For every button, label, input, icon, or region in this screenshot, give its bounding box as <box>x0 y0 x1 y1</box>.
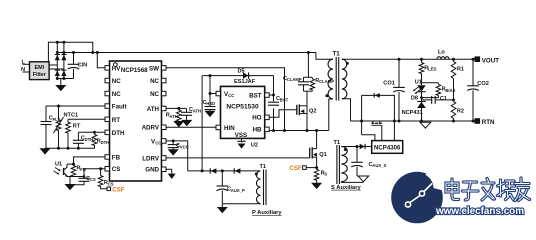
optocoupler U1 phototransistor <box>54 162 74 178</box>
wire bulk rail (rail2) <box>57 53 333 60</box>
diode D bridge top-right <box>61 55 66 61</box>
junction dots bridge top <box>56 41 59 44</box>
svg-text:D5: D5 <box>238 68 245 74</box>
svg-text:U1: U1 <box>55 162 62 168</box>
diode D5 ES1JAF <box>234 68 256 85</box>
capacitor CATH <box>181 107 201 120</box>
pin ADRV <box>162 125 167 130</box>
wire QSR gate <box>381 125 383 140</box>
terminal VOUT <box>475 56 481 62</box>
svg-text:CSF: CSF <box>112 186 125 193</box>
ground CATH <box>181 120 192 126</box>
wire ground rail left <box>45 147 95 149</box>
svg-text:S: S <box>324 172 327 177</box>
ground CAUX_P <box>221 204 223 207</box>
pin ATH <box>162 106 167 111</box>
pin RT <box>105 117 110 122</box>
svg-text:SW: SW <box>149 65 159 72</box>
pin GND <box>162 167 167 172</box>
svg-text:FB: FB <box>80 167 86 172</box>
glyph 友 <box>515 178 530 201</box>
pin SW <box>162 66 167 71</box>
resistor RLED <box>419 58 436 83</box>
EMI filter block <box>30 62 50 80</box>
svg-text:ES1JAF: ES1JAF <box>234 79 256 85</box>
svg-text:BST: BST <box>249 92 262 99</box>
svg-text:EMI: EMI <box>35 65 45 71</box>
capacitor C1 <box>422 96 454 104</box>
capacitor CIN <box>68 53 87 79</box>
wire LED node bottom <box>422 97 439 99</box>
junction dots ground rail <box>57 147 60 150</box>
wire CS net <box>84 169 105 177</box>
wire Q2 source <box>306 115 308 130</box>
svg-text:CO1: CO1 <box>383 80 395 86</box>
svg-text:Q2: Q2 <box>309 109 316 115</box>
svg-text:LDRV: LDRV <box>142 155 160 162</box>
wire SW to switch node <box>166 68 285 131</box>
svg-text:DTH: DTH <box>112 130 125 137</box>
resistor R1 <box>451 58 464 102</box>
svg-text:C1: C1 <box>440 96 447 102</box>
wire EMI out top <box>49 64 57 66</box>
resistor RT <box>66 119 81 148</box>
diode sync body <box>374 93 380 98</box>
ground CHSD <box>205 111 216 117</box>
capacitor CVCC <box>168 141 189 149</box>
capacitor CBST <box>268 96 289 108</box>
wire FB net <box>74 157 106 164</box>
svg-text:BST: BST <box>280 98 289 103</box>
pin LDRV <box>162 156 167 161</box>
svg-text:BIAS: BIAS <box>445 88 455 93</box>
glyph 发 <box>482 179 495 201</box>
junction dots switch node <box>272 129 275 132</box>
wire VCC 51530 <box>210 93 216 95</box>
ground RATH <box>173 121 184 127</box>
wire s-aux bottom <box>341 181 363 184</box>
wire LDRV net <box>166 157 310 159</box>
svg-text:Filter: Filter <box>33 72 47 78</box>
glyph 子 <box>463 182 479 200</box>
svg-text:Lo: Lo <box>438 49 445 55</box>
diode D bridge top-left <box>55 55 60 61</box>
svg-text:T1: T1 <box>333 51 341 58</box>
ground bridge <box>60 79 62 86</box>
ground secondary <box>424 121 426 122</box>
wire aux rail <box>188 170 260 172</box>
wire clamp top bar <box>304 76 313 78</box>
U3 NCP4306 <box>372 141 403 154</box>
svg-text:CLAMP: CLAMP <box>319 79 334 84</box>
svg-text:ATH: ATH <box>170 114 178 119</box>
svg-text:ATH: ATH <box>193 108 201 113</box>
wire s-aux top <box>341 146 371 148</box>
pin VCC U2 <box>216 91 221 96</box>
svg-text:www.elecfans.com: www.elecfans.com <box>435 206 524 217</box>
svg-text:VOUT: VOUT <box>482 57 499 64</box>
svg-text:CC: CC <box>228 93 234 98</box>
node CSF secondary tap <box>303 166 307 170</box>
svg-text:Fault: Fault <box>112 104 127 111</box>
wire clamp feed <box>307 53 309 78</box>
wire HV feed <box>97 53 105 68</box>
svg-text:NCP4306: NCP4306 <box>374 145 401 152</box>
svg-text:VSS: VSS <box>235 132 247 139</box>
resistor R2 <box>451 102 464 123</box>
resistor RATH <box>166 108 181 121</box>
svg-text:T1: T1 <box>260 164 267 170</box>
svg-text:RT: RT <box>112 117 120 124</box>
glyph 电 <box>446 179 459 200</box>
wire bridge top rail1 <box>57 41 64 43</box>
svg-text:HSD: HSD <box>206 101 215 106</box>
diode D bridge bottom-right <box>61 70 66 76</box>
svg-text:FB: FB <box>112 154 121 161</box>
svg-text:Q1: Q1 <box>319 152 326 158</box>
sync rect loop <box>362 95 395 140</box>
pin NC left2 <box>105 78 110 83</box>
bridge rectifier column 2 <box>63 42 65 78</box>
ground VSS U2 <box>237 138 258 148</box>
wire VCC net <box>166 141 188 171</box>
svg-text:HB: HB <box>253 127 262 134</box>
svg-text:RT: RT <box>73 124 81 130</box>
pin NC right3 <box>162 91 167 96</box>
transistor Q2 <box>297 104 317 115</box>
svg-text:RTN: RTN <box>482 119 495 126</box>
svg-text:U1: U1 <box>415 79 422 85</box>
pin NC left3 <box>105 91 110 96</box>
wire DTH net <box>78 131 105 133</box>
glyph 烧 <box>498 180 515 200</box>
wire ATH net <box>166 107 187 109</box>
svg-text:NCP431: NCP431 <box>402 110 423 116</box>
transistor QSR sync MOSFET <box>371 121 381 125</box>
junction dot rail1 join <box>91 51 94 54</box>
svg-text:R1: R1 <box>457 67 464 73</box>
capacitor CO2 <box>467 58 489 123</box>
pin DTH <box>105 130 110 135</box>
wire bridge bottom <box>57 78 73 80</box>
wire secondary bottom <box>342 99 351 121</box>
svg-text:CSF: CSF <box>289 165 302 172</box>
logo circle <box>391 172 443 224</box>
svg-text:VCC: VCC <box>180 144 189 149</box>
svg-text:CS: CS <box>112 166 121 173</box>
pin FB <box>105 155 110 160</box>
svg-text:CO2: CO2 <box>477 81 489 87</box>
junction dot CIN top <box>72 51 75 54</box>
capacitor CFLT <box>41 106 61 148</box>
svg-text:CS: CS <box>90 177 96 182</box>
ground RS <box>311 183 322 189</box>
wire FB bottom node <box>67 176 84 178</box>
ground CVCC <box>168 149 179 155</box>
capacitor CDTH <box>73 132 93 148</box>
capacitor CCLAMP <box>283 76 309 91</box>
svg-text:NCP1568: NCP1568 <box>121 67 148 74</box>
wire RTN rail <box>351 120 475 122</box>
capacitor CO1 <box>383 58 405 123</box>
shunt regulator D8 NCP431 <box>402 95 426 122</box>
svg-text:U2: U2 <box>251 143 258 149</box>
pin BST U2 <box>265 93 270 98</box>
wire N input <box>23 71 30 73</box>
diode DSR aux <box>360 144 366 149</box>
wire drain sense to NCP4306 <box>362 135 375 141</box>
svg-text:NC: NC <box>112 91 121 98</box>
svg-text:NTC1: NTC1 <box>64 113 79 119</box>
pin HIN U2 <box>216 125 221 130</box>
ground left rail <box>40 148 51 154</box>
resistor RCS <box>98 169 113 189</box>
optocoupler U1 LED <box>413 79 426 97</box>
terminal RTN <box>475 118 481 124</box>
wire LED node top <box>422 82 439 84</box>
wire aux bottom <box>222 203 260 205</box>
wire HO to Q2 gate <box>269 110 297 118</box>
svg-text:ATH: ATH <box>147 106 160 113</box>
svg-text:DTH: DTH <box>101 140 110 145</box>
pin HV <box>105 66 110 71</box>
pin NC right2 <box>162 78 167 83</box>
svg-text:D8: D8 <box>411 95 418 101</box>
capacitor CAUX_P <box>217 171 245 204</box>
svg-text:AUX_S: AUX_S <box>372 163 386 168</box>
diode Daux2 <box>234 168 240 173</box>
wire EMI top to rail1 <box>48 42 92 62</box>
svg-text:HIN: HIN <box>224 125 235 132</box>
ground U1 <box>69 177 71 185</box>
node CSF primary <box>107 187 111 191</box>
svg-text:GND: GND <box>145 167 159 174</box>
svg-text:HV: HV <box>112 65 121 72</box>
svg-text:NC: NC <box>112 78 121 85</box>
transformer T1 P-auxiliary winding <box>255 164 266 205</box>
pin HB U2 <box>265 127 270 132</box>
resistor RDTH <box>92 131 109 149</box>
ground CAUX_S <box>357 175 363 177</box>
svg-text:R2: R2 <box>457 109 464 115</box>
bridge rectifier column 1 <box>56 42 58 78</box>
wire switch node rail <box>269 130 329 132</box>
svg-text:HO: HO <box>252 115 261 122</box>
pin VCC <box>162 139 167 144</box>
svg-text:ADRV: ADRV <box>142 125 160 132</box>
wire VOUT rail <box>342 58 475 60</box>
resistor RFB <box>71 164 86 176</box>
pin HO U2 <box>265 115 270 120</box>
wire EMI out bottom <box>49 68 64 70</box>
wire BST <box>273 76 275 131</box>
inductor Lo <box>437 49 449 59</box>
ground GND pin <box>166 169 176 179</box>
junction dots RTN rail <box>360 120 363 123</box>
capacitor CHSD <box>203 76 216 111</box>
capacitor CAUX_S <box>351 147 386 177</box>
svg-text:CLAMP: CLAMP <box>287 77 302 82</box>
resistor RCLAMP <box>310 77 334 91</box>
svg-text:CC: CC <box>155 140 161 145</box>
wire RT net <box>68 118 105 120</box>
thermistor NTC1 <box>54 105 79 149</box>
diode D bridge bottom-left <box>55 70 60 76</box>
svg-text:NC: NC <box>150 78 159 85</box>
wire L input <box>23 63 30 65</box>
svg-text:NCP51530: NCP51530 <box>226 104 259 111</box>
svg-text:S Auxiliary: S Auxiliary <box>331 185 362 191</box>
resistor RBIAS <box>436 83 456 98</box>
wire clamp bottom bar <box>304 90 313 92</box>
svg-text:LED: LED <box>428 67 436 72</box>
wire primary bottom to switch node <box>329 99 333 131</box>
wire Fault net <box>46 105 105 107</box>
capacitor CCS <box>70 176 96 185</box>
svg-text:NC: NC <box>150 91 159 98</box>
pin Fault <box>105 104 110 109</box>
svg-text:CIN: CIN <box>78 63 88 69</box>
resistor RS <box>314 168 327 183</box>
wire ADRV-HIN <box>166 126 216 128</box>
pin CS <box>105 167 110 172</box>
transistor Q1 <box>310 131 327 168</box>
diode Daux1 <box>210 168 216 173</box>
svg-text:AUX_P: AUX_P <box>231 188 245 193</box>
wire D5 net <box>202 75 273 77</box>
wire aux to D5 riser <box>201 76 203 171</box>
svg-text:P Auxiliary: P Auxiliary <box>252 210 282 216</box>
